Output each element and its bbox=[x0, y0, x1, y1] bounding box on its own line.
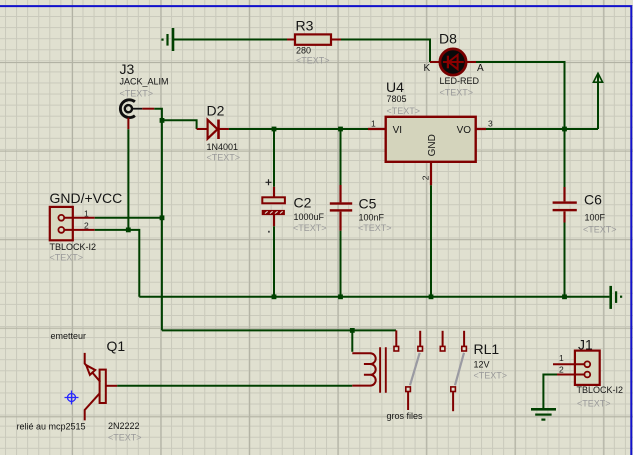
svg-text:K: K bbox=[424, 63, 431, 74]
svg-text:J3: J3 bbox=[120, 61, 135, 77]
pin number 2 bbox=[421, 175, 431, 180]
node relay top bbox=[350, 328, 355, 333]
svg-text:1000uF: 1000uF bbox=[294, 212, 325, 222]
svg-text:TBLOCK-I2: TBLOCK-I2 bbox=[577, 385, 624, 395]
node rail C2 bbox=[272, 294, 277, 299]
value 280 bbox=[296, 45, 311, 55]
svg-text:VO: VO bbox=[457, 125, 472, 136]
node C5 top bbox=[338, 127, 343, 132]
svg-text:1: 1 bbox=[84, 208, 89, 218]
capacitor C5 bbox=[330, 202, 352, 211]
pin number 3 bbox=[488, 119, 493, 129]
svg-text:2: 2 bbox=[559, 364, 564, 374]
svg-text:2N2222: 2N2222 bbox=[108, 421, 140, 431]
transistor Q1 bbox=[85, 353, 118, 421]
node rail C6 bbox=[562, 294, 567, 299]
label Q1 bbox=[107, 338, 126, 354]
value 1000uF bbox=[294, 212, 325, 222]
svg-text:emetteur: emetteur bbox=[51, 331, 87, 341]
svg-text:Q1: Q1 bbox=[107, 338, 126, 354]
value LED-RED bbox=[440, 76, 480, 86]
label RL1 bbox=[474, 341, 500, 357]
ground (right, rotated right) bbox=[609, 286, 622, 309]
value TBLOCK-I2 bbox=[50, 242, 97, 252]
power arrow bbox=[593, 73, 602, 129]
svg-text:R3: R3 bbox=[296, 18, 314, 34]
svg-text:280: 280 bbox=[296, 45, 311, 55]
label relié au mcp2515 bbox=[17, 421, 86, 431]
relay blade 1 bbox=[410, 353, 420, 386]
svg-text:1N4001: 1N4001 bbox=[207, 142, 239, 152]
wire C5 top bbox=[340, 129, 342, 185]
pin number 2 bbox=[559, 364, 564, 374]
svg-text:<TEXT>: <TEXT> bbox=[207, 152, 241, 162]
diode D2 leads bbox=[197, 128, 229, 130]
svg-text:<TEXT>: <TEXT> bbox=[50, 252, 84, 262]
capacitor C6 leads bbox=[563, 187, 565, 223]
wire U4 GND down bbox=[430, 185, 432, 296]
relay blade 2 bbox=[455, 353, 464, 386]
value 7805 bbox=[387, 94, 407, 104]
svg-text:<TEXT>: <TEXT> bbox=[583, 224, 617, 234]
relay common terminals bottom bbox=[406, 387, 456, 392]
svg-text:<TEXT>: <TEXT> bbox=[387, 106, 421, 116]
node VO rail at C6 bbox=[562, 127, 567, 132]
node junction D2 branch bbox=[160, 118, 165, 123]
svg-text:<TEXT>: <TEXT> bbox=[440, 87, 474, 97]
label U4 bbox=[386, 79, 404, 95]
svg-text:D2: D2 bbox=[207, 102, 225, 118]
pin number 1 bbox=[371, 119, 376, 129]
svg-text:GND/+VCC: GND/+VCC bbox=[50, 190, 123, 206]
value TBLOCK-I2 bbox=[577, 385, 624, 395]
relay contact pin stub 4 bbox=[463, 331, 465, 347]
pin number 1 bbox=[559, 353, 564, 363]
J3 right pin lead bbox=[142, 108, 154, 110]
label D8 bbox=[439, 31, 457, 47]
node pin2 junction bbox=[126, 228, 131, 233]
LED lead red bbox=[430, 61, 476, 63]
svg-text:<TEXT>: <TEXT> bbox=[120, 89, 154, 99]
svg-text:<TEXT>: <TEXT> bbox=[293, 223, 327, 233]
wire U4 VO right bbox=[486, 128, 598, 130]
node rail U4 GND bbox=[429, 294, 434, 299]
svg-text:U4: U4 bbox=[386, 79, 404, 95]
wire Q1 base to relay coil bbox=[117, 385, 352, 387]
wire C2 top bbox=[273, 129, 275, 187]
label C2 bbox=[294, 195, 312, 211]
svg-text:2: 2 bbox=[421, 175, 431, 180]
relay contact pin stub 3 bbox=[442, 331, 444, 347]
label C6 bbox=[584, 191, 602, 207]
op-amp U4 body bbox=[386, 117, 476, 162]
wire C6 top bbox=[564, 129, 566, 187]
node pin1 junction bbox=[160, 215, 165, 220]
svg-text:7805: 7805 bbox=[387, 94, 407, 104]
wire LED A to right rail bbox=[476, 62, 565, 129]
wire R3 to LED K bbox=[341, 40, 430, 63]
terminal block GND/+VCC bbox=[50, 207, 95, 240]
wire J1 pin2 to ground bbox=[543, 375, 557, 409]
resistor R1 leads bbox=[287, 39, 341, 41]
ground (top-left, rotated left) bbox=[161, 28, 174, 51]
relay RL1 coil bbox=[352, 347, 386, 392]
svg-text:VI: VI bbox=[393, 125, 402, 136]
node rail C5 bbox=[338, 294, 343, 299]
svg-text:12V: 12V bbox=[474, 359, 490, 369]
label GND/+VCC bbox=[50, 190, 123, 206]
wire C5 bottom bbox=[340, 231, 342, 297]
svg-text:3: 3 bbox=[488, 119, 493, 129]
svg-text:<TEXT>: <TEXT> bbox=[474, 370, 508, 380]
svg-text:A: A bbox=[477, 63, 484, 74]
relay contact pin stub 2 bbox=[419, 331, 421, 347]
svg-text:100F: 100F bbox=[585, 213, 606, 223]
svg-text:1: 1 bbox=[371, 119, 376, 129]
svg-text:TBLOCK-I2: TBLOCK-I2 bbox=[50, 242, 97, 252]
label D2 bbox=[207, 102, 225, 118]
svg-text:gros files: gros files bbox=[387, 411, 424, 421]
value 100F bbox=[585, 213, 606, 223]
pin name GND bbox=[427, 134, 438, 156]
svg-text:J1: J1 bbox=[578, 336, 593, 352]
svg-text:C5: C5 bbox=[359, 196, 377, 212]
label K bbox=[424, 63, 431, 74]
wire pin1 to main vertical bbox=[95, 217, 162, 219]
regulator U4 leads bbox=[368, 129, 486, 185]
relay contact terminals top bbox=[394, 346, 466, 351]
pin name VO bbox=[457, 125, 472, 136]
terminal block J1 bbox=[553, 351, 600, 385]
wire J3 right down main vertical bbox=[154, 109, 162, 331]
value 1N4001 bbox=[207, 142, 239, 152]
wire C2 bottom bbox=[273, 226, 275, 296]
pin name VI bbox=[393, 125, 402, 136]
capacitor C5 leads bbox=[339, 185, 341, 231]
value 12V bbox=[474, 359, 490, 369]
value JACK_ALIM bbox=[120, 76, 169, 86]
pin number 2 bbox=[84, 221, 89, 231]
svg-text:<TEXT>: <TEXT> bbox=[296, 56, 330, 66]
relay common stub 1 bbox=[407, 392, 409, 411]
origin marker bbox=[65, 391, 79, 405]
relay common stub 2 bbox=[452, 392, 454, 412]
svg-text:1: 1 bbox=[559, 353, 564, 363]
LED D8 bbox=[440, 49, 466, 75]
svg-text:<TEXT>: <TEXT> bbox=[358, 223, 392, 233]
svg-text:D8: D8 bbox=[439, 31, 457, 47]
value 2N2222 bbox=[108, 421, 140, 431]
label A bbox=[477, 63, 484, 74]
J3 bottom pin lead bbox=[127, 118, 129, 130]
wire pin2 right and down bbox=[95, 230, 140, 297]
wire D2 to U4 rail bbox=[229, 128, 368, 130]
svg-text:C6: C6 bbox=[584, 191, 602, 207]
diode D2 bbox=[208, 120, 219, 140]
svg-text:C2: C2 bbox=[294, 195, 312, 211]
svg-text:relié au mcp2515: relié au mcp2515 bbox=[17, 421, 86, 431]
svg-text:2: 2 bbox=[84, 221, 89, 231]
wire bottom rail bbox=[139, 296, 609, 298]
label R3 bbox=[296, 18, 314, 34]
svg-text:<TEXT>: <TEXT> bbox=[108, 433, 142, 443]
relay contact pin stub 1 bbox=[395, 330, 397, 346]
label J3 bbox=[120, 61, 135, 77]
wire C6 bottom bbox=[564, 223, 566, 297]
svg-text:RL1: RL1 bbox=[474, 341, 500, 357]
connector J3 jack bbox=[120, 100, 142, 118]
value 100nF bbox=[359, 212, 385, 222]
capacitor C2 leads bbox=[273, 187, 275, 227]
capacitor C2 bbox=[262, 179, 285, 232]
label gros files bbox=[387, 411, 424, 421]
svg-text:LED-RED: LED-RED bbox=[440, 76, 480, 86]
pin number 1 bbox=[84, 208, 89, 218]
wire J3 bottom down bbox=[127, 129, 129, 230]
capacitor C6 bbox=[553, 201, 577, 211]
wire coil top pin bbox=[351, 330, 353, 351]
label C5 bbox=[359, 196, 377, 212]
label J1 bbox=[578, 336, 593, 352]
svg-text:JACK_ALIM: JACK_ALIM bbox=[120, 76, 169, 86]
resistor R3 bbox=[295, 34, 331, 44]
ground (bottom) bbox=[531, 408, 556, 421]
wire ground to R3 bbox=[174, 39, 287, 41]
svg-text:<TEXT>: <TEXT> bbox=[577, 399, 611, 409]
label emetteur bbox=[51, 331, 87, 341]
svg-text:GND: GND bbox=[427, 134, 438, 156]
wire branch to D2 bbox=[162, 120, 197, 129]
wire main vertical to relay top bbox=[162, 329, 396, 331]
svg-text:100nF: 100nF bbox=[359, 212, 385, 222]
node C2 top bbox=[272, 127, 277, 132]
